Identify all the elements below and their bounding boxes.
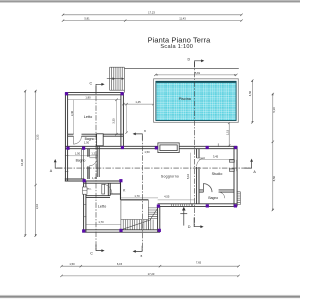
svg-text:Soggiorno: Soggiorno bbox=[161, 174, 179, 178]
svg-text:11,43: 11,43 bbox=[179, 16, 186, 20]
svg-text:1,80: 1,80 bbox=[85, 96, 91, 100]
svg-text:1,50: 1,50 bbox=[75, 151, 81, 155]
svg-text:4,50: 4,50 bbox=[248, 90, 252, 96]
svg-text:Piscina: Piscina bbox=[179, 97, 192, 101]
svg-text:Bagno: Bagno bbox=[85, 137, 95, 141]
svg-text:6,15: 6,15 bbox=[117, 262, 123, 266]
svg-text:1,50: 1,50 bbox=[84, 140, 90, 144]
svg-text:1,50: 1,50 bbox=[144, 150, 150, 154]
svg-text:1,15: 1,15 bbox=[225, 129, 229, 135]
svg-text:w.c.: w.c. bbox=[87, 187, 92, 190]
svg-text:16,38: 16,38 bbox=[20, 159, 24, 166]
svg-text:Studio: Studio bbox=[212, 172, 223, 176]
svg-text:3,40: 3,40 bbox=[70, 110, 74, 116]
svg-text:1,50: 1,50 bbox=[69, 262, 75, 266]
svg-text:D: D bbox=[187, 57, 190, 61]
svg-text:3,33: 3,33 bbox=[35, 134, 39, 140]
svg-text:C: C bbox=[89, 81, 92, 85]
svg-text:5,10: 5,10 bbox=[272, 107, 276, 113]
svg-text:3,35: 3,35 bbox=[112, 118, 116, 124]
svg-text:5,81: 5,81 bbox=[84, 16, 90, 20]
svg-text:1,45: 1,45 bbox=[135, 100, 141, 104]
svg-text:3,10: 3,10 bbox=[35, 203, 39, 209]
svg-text:Bagno: Bagno bbox=[208, 196, 218, 200]
svg-text:7,65: 7,65 bbox=[196, 261, 202, 265]
svg-text:Scala 1:100: Scala 1:100 bbox=[160, 44, 193, 50]
svg-text:5,10: 5,10 bbox=[186, 173, 190, 179]
svg-text:Letto: Letto bbox=[84, 115, 92, 119]
svg-text:Letto: Letto bbox=[98, 205, 106, 209]
svg-text:17,23: 17,23 bbox=[148, 272, 155, 276]
svg-text:Bagno: Bagno bbox=[76, 159, 86, 163]
svg-text:17,23: 17,23 bbox=[148, 11, 155, 15]
svg-text:4,55: 4,55 bbox=[164, 195, 170, 199]
svg-text:C: C bbox=[90, 251, 93, 255]
svg-text:6,50: 6,50 bbox=[272, 175, 276, 181]
svg-text:1,70: 1,70 bbox=[134, 194, 140, 198]
svg-text:3,45: 3,45 bbox=[213, 155, 219, 159]
svg-text:5,81: 5,81 bbox=[195, 71, 201, 75]
svg-text:D: D bbox=[188, 225, 191, 229]
svg-text:1,70: 1,70 bbox=[98, 220, 104, 224]
